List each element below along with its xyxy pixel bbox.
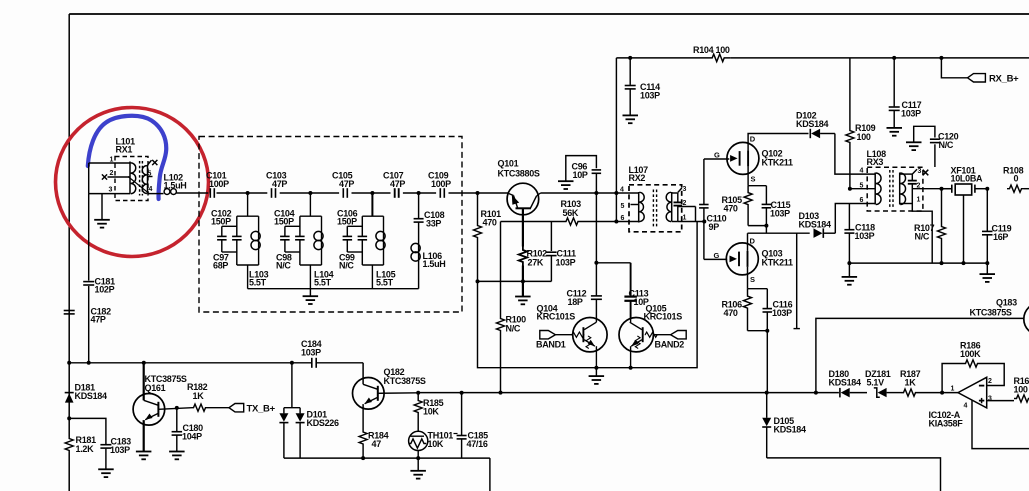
wire section bottom bus — [362, 264, 383, 266]
feedback resistor R186 100K — [942, 364, 963, 393]
svg-text:103P: 103P — [772, 308, 792, 318]
capacitor C120 N/C — [914, 126, 935, 141]
svg-text:N/C: N/C — [339, 261, 354, 271]
wire R101/R102/C111 bottom bus — [478, 280, 552, 282]
capacitor C105 47P — [342, 188, 344, 198]
svg-text:10L0BA: 10L0BA — [951, 174, 984, 184]
capacitor C96 10P — [566, 156, 597, 181]
annotation blue curve — [88, 116, 166, 199]
svg-text:103P: 103P — [855, 231, 875, 241]
capacitor C114 103P — [628, 56, 632, 60]
capacitor C110 9P — [703, 159, 705, 204]
capacitor C106 — [361, 216, 363, 236]
wire Q104 emitter to bus — [595, 346, 597, 368]
svg-text:6: 6 — [860, 197, 864, 204]
ground at C183 — [98, 468, 114, 470]
L108 secondary winding — [899, 173, 901, 205]
annotation red circle — [56, 108, 209, 257]
wire op-amp pin3 to R165 — [987, 400, 1014, 402]
node junction R185 — [416, 391, 420, 395]
svg-text:RX2: RX2 — [629, 173, 646, 183]
wire cap tie top — [347, 225, 362, 227]
node junction R101 bottom — [476, 279, 480, 283]
capacitor C184 103P (series in wire) — [311, 358, 313, 368]
L107 internal capacitor — [672, 192, 678, 194]
svg-text:RX3: RX3 — [867, 157, 884, 167]
wire drop to ground bus — [371, 265, 373, 289]
wire L102 to C101 — [176, 192, 208, 194]
svg-text:100: 100 — [1014, 385, 1028, 395]
svg-text:47P: 47P — [272, 179, 287, 189]
L101 top-right pin with X (N/C) — [148, 160, 152, 165]
diode D105 KDS184 — [766, 393, 768, 418]
L101 pin5 stub — [148, 176, 153, 178]
wire R106/C116 bottom bus — [748, 330, 768, 332]
svg-text:102P: 102P — [95, 285, 115, 295]
wire stub from detector bus (to other section) — [796, 233, 798, 328]
wire Q161 base — [158, 408, 192, 410]
node junction at rail x=247.6 — [246, 191, 250, 195]
svg-text:4: 4 — [964, 403, 968, 410]
svg-text:1K: 1K — [905, 378, 917, 388]
wire bias node to L107 pin6 — [501, 221, 566, 223]
wire D105 route to bottom right — [767, 458, 941, 491]
svg-text:16P: 16P — [993, 232, 1008, 242]
wire R105/C115 top bus — [748, 185, 766, 187]
wire drop to bottom edge — [489, 458, 491, 491]
main horizontal wire to op-amp — [418, 392, 839, 394]
resistor R105 470 — [744, 186, 752, 212]
transistor Q105 KRC101S — [619, 318, 653, 352]
wire op-amp pin4 — [972, 401, 1029, 449]
TX_B+ flag — [229, 404, 244, 412]
wire R106/C116 top bus — [748, 288, 768, 290]
resistor R187 1K — [901, 389, 918, 396]
wire L108 pin5 — [850, 188, 875, 190]
ground at band emitters — [595, 368, 597, 376]
node junction D101 drop — [290, 361, 294, 365]
capacitor C108 33P — [418, 193, 420, 219]
capacitor C183 103P — [100, 444, 111, 446]
transistor Q104 KRC101S — [573, 318, 607, 352]
svg-text:3: 3 — [918, 168, 922, 175]
svg-text:470: 470 — [483, 218, 497, 228]
wire vertical with C181 (to bottom rail) — [88, 194, 90, 281]
svg-text:N/C: N/C — [939, 140, 954, 150]
inductor L104 — [321, 216, 323, 265]
node junction at rail x=310.4 — [308, 191, 312, 195]
wire section bottom bus — [300, 264, 322, 266]
node junction C112 chain at main wire — [595, 193, 597, 263]
svg-text:2: 2 — [110, 170, 114, 177]
svg-text:1: 1 — [110, 157, 114, 164]
svg-text:1.5uH: 1.5uH — [423, 259, 446, 269]
wire main to L107 pin4 — [596, 192, 638, 194]
svg-text:9P: 9P — [709, 222, 720, 232]
wire R105/C115 bottom bus — [748, 225, 766, 227]
svg-text:5: 5 — [621, 203, 625, 210]
inductor L105 — [383, 216, 385, 265]
ground at C114 — [623, 114, 639, 116]
ground at C180 — [169, 451, 185, 453]
wire D102 to L108 pin4 — [835, 134, 875, 175]
wire L101 left loop (pin1 to pin3) — [88, 163, 90, 194]
wire Q103 drain — [747, 233, 749, 251]
resistor R106 470 — [744, 289, 752, 316]
frame top border — [69, 13, 1029, 15]
ground at Q161 emitter — [136, 451, 152, 453]
svg-text:0: 0 — [1014, 174, 1019, 184]
capacitor C104 — [299, 216, 301, 236]
svg-text:N/C: N/C — [915, 232, 930, 242]
svg-text:103P: 103P — [770, 209, 790, 219]
node junction R103/L107 feed — [614, 220, 618, 224]
resistor R109 100 (from rail to L108 pin5) — [849, 58, 851, 128]
wire Q103 gate — [704, 258, 727, 260]
L107 pin1 wire — [678, 221, 705, 223]
wire cap tie top — [285, 225, 300, 227]
capacitor C97 — [221, 226, 223, 236]
capacitor C109 100P — [439, 188, 441, 198]
svg-text:150P: 150P — [274, 217, 294, 227]
svg-text:KDS226: KDS226 — [307, 418, 340, 428]
svg-text:KTK211: KTK211 — [762, 158, 794, 168]
wire cap tie bottom — [347, 251, 362, 253]
op-amp IC102-A KIA358F — [958, 377, 987, 408]
svg-text:5.1V: 5.1V — [867, 378, 885, 388]
svg-text:5.5T: 5.5T — [249, 278, 267, 288]
svg-text:KTC3875S: KTC3875S — [384, 376, 426, 386]
filter block dashed box — [199, 137, 462, 313]
ground at C96 — [558, 180, 574, 182]
resistor R101 470 — [477, 193, 479, 222]
svg-text:47/16: 47/16 — [467, 439, 488, 449]
wire Q103 source — [747, 267, 749, 289]
resistor R103 56K — [565, 218, 579, 225]
dual diode D101 KDS226 — [291, 363, 293, 408]
capacitor C182 47P (on left border wire) — [64, 310, 75, 312]
svg-text:47: 47 — [372, 439, 382, 449]
resistor R184 47 (bold labels) — [362, 409, 364, 430]
svg-text:5.5T: 5.5T — [314, 278, 332, 288]
svg-text:100P: 100P — [431, 179, 451, 189]
svg-text:10P: 10P — [573, 170, 588, 180]
L107 secondary winding — [671, 192, 673, 222]
capacitor C180 104P — [176, 408, 178, 431]
wire Q104 collector entry — [595, 318, 597, 322]
svg-text:104P: 104P — [182, 432, 202, 442]
svg-text:103P: 103P — [556, 258, 576, 268]
transistor Q102 KTK211 (FET) — [727, 142, 759, 174]
capacitor C99 — [346, 226, 348, 236]
svg-text:KDS184: KDS184 — [799, 220, 832, 230]
transistor Q103 KTK211 (FET) — [726, 243, 758, 275]
svg-text:S: S — [750, 275, 755, 284]
svg-text:5: 5 — [860, 183, 864, 190]
svg-text:27K: 27K — [528, 258, 544, 268]
filter ground bus wire — [248, 288, 419, 290]
svg-text:47P: 47P — [91, 315, 106, 325]
L101 core dashed lines — [139, 161, 141, 196]
diode D180 KDS184 — [839, 388, 841, 398]
svg-text:68P: 68P — [213, 261, 228, 271]
transformer L108 dashed box — [867, 167, 923, 211]
L108 pin3 stub with asterisk — [912, 169, 917, 174]
wire to Q183 — [816, 318, 1024, 392]
bottom supply wire — [69, 362, 311, 364]
L101 tuning slug diagonal — [128, 177, 150, 194]
frame left border / B+ rail wire — [68, 14, 70, 437]
svg-text:D: D — [750, 135, 756, 144]
svg-text:KTK211: KTK211 — [762, 258, 794, 268]
svg-text:47P: 47P — [339, 179, 354, 189]
wire C116 node down to main wire — [766, 331, 768, 393]
svg-text:5: 5 — [148, 171, 152, 178]
resistor R100 N/C (chain down to main wire) — [500, 222, 502, 317]
node junction supply drop — [614, 191, 618, 195]
capacitor C103 47P — [271, 188, 273, 198]
capacitor C101 100P — [209, 188, 211, 198]
svg-text:56K: 56K — [563, 208, 579, 218]
svg-text:150P: 150P — [337, 217, 357, 227]
ground at detector rail — [985, 261, 989, 265]
inductor L106 1.5uH — [418, 222, 420, 289]
capacitor C112 18P — [595, 263, 597, 296]
svg-text:KIA358F: KIA358F — [929, 419, 964, 429]
svg-text:KDS184: KDS184 — [75, 391, 108, 401]
wire feed from rail — [247, 193, 249, 216]
svg-text:4: 4 — [620, 187, 624, 194]
wire Q102 gate — [704, 158, 729, 160]
L101 primary winding — [129, 162, 131, 194]
diode D103 KDS184 — [822, 228, 824, 238]
svg-text:Q161: Q161 — [145, 383, 166, 393]
svg-text:KRC101S: KRC101S — [537, 312, 576, 322]
node junction at rail x=372.4 — [370, 191, 374, 195]
resistor R107 N/C — [940, 187, 944, 191]
capacitor C181 102P — [83, 281, 94, 283]
wire Q101 collector to C96 junction — [541, 192, 597, 194]
wire R182 to TX_B+ flag — [207, 407, 229, 409]
wire XF101 case to ground rail — [963, 195, 965, 263]
wire cap tie top — [222, 225, 237, 227]
svg-text:103P: 103P — [901, 109, 921, 119]
capacitor C118 103P — [848, 204, 850, 230]
wire TH101 to bus — [417, 451, 419, 471]
wire Q105 collector entry — [630, 318, 632, 322]
svg-text:1: 1 — [683, 215, 687, 222]
capacitor C116 103P — [766, 289, 768, 309]
ground at TH101 — [410, 470, 426, 472]
svg-text:BAND1: BAND1 — [536, 340, 566, 350]
BAND1 flag — [540, 331, 556, 339]
node junction C185 — [460, 391, 464, 395]
svg-text:RX1: RX1 — [116, 145, 133, 155]
svg-text:1: 1 — [917, 197, 921, 204]
svg-text:33P: 33P — [426, 219, 441, 229]
wire Q102 drain — [748, 134, 808, 151]
resistor R165 100K (partial at edge) — [1014, 395, 1029, 402]
wire cap tie bottom — [285, 251, 300, 253]
wire Q182 collector — [362, 363, 364, 379]
transformer L101 dashed box — [115, 157, 148, 201]
wire D103 to L108 pin6 — [835, 204, 875, 234]
wire feed from rail — [371, 193, 373, 216]
svg-text:G: G — [714, 251, 720, 260]
capacitor C113 10P (bold) — [630, 263, 632, 297]
svg-text:BAND2: BAND2 — [655, 340, 685, 350]
svg-text:KDS184: KDS184 — [774, 425, 807, 435]
svg-text:S: S — [751, 175, 756, 184]
capacitor C102 — [236, 216, 238, 236]
svg-text:2: 2 — [988, 378, 992, 385]
svg-text:KDS184: KDS184 — [796, 119, 829, 129]
capacitor C111 103P — [550, 222, 552, 252]
Q101 base/emitter structure — [508, 193, 514, 196]
svg-text:3: 3 — [109, 187, 113, 194]
wire to C183 — [69, 418, 106, 444]
supply rail wire — [616, 57, 706, 59]
inductor L103 — [258, 216, 260, 265]
main rail wire through filter — [217, 192, 268, 194]
svg-text:R104 100: R104 100 — [693, 45, 730, 55]
L107 pin3 stub — [678, 188, 682, 193]
svg-text:1K: 1K — [193, 391, 205, 401]
wire AGC return (band box right edge) — [478, 222, 698, 368]
L108 pin1 wire — [912, 204, 932, 264]
transformer L107 dashed box — [629, 185, 682, 232]
svg-text:103P: 103P — [301, 348, 321, 358]
wire cap tie bottom — [222, 251, 237, 253]
svg-text:6: 6 — [621, 215, 625, 222]
bottom common bus wire — [284, 457, 490, 459]
ground of filter — [309, 289, 311, 296]
svg-text:470: 470 — [724, 308, 738, 318]
svg-text:470: 470 — [724, 204, 738, 214]
svg-text:N/C: N/C — [506, 324, 521, 334]
wire drain bus to D103 — [748, 232, 810, 234]
resistor R185 10K — [417, 393, 419, 399]
svg-text:RX_B+: RX_B+ — [989, 74, 1019, 85]
resistor R104 100 — [706, 54, 730, 62]
detector ground rail wire — [849, 262, 987, 264]
node junction C183 tee — [67, 416, 71, 420]
L108 internal capacitor — [900, 173, 913, 175]
resistor R102 27K — [519, 247, 527, 266]
RX_B+ supply flag — [939, 56, 943, 60]
svg-text:D: D — [750, 237, 756, 246]
svg-text:1: 1 — [951, 386, 955, 393]
ground at Q101 emitter — [515, 296, 531, 298]
resistor R181 1.2K (on left wire) — [65, 437, 73, 453]
svg-text:2: 2 — [683, 200, 687, 207]
svg-text:3: 3 — [683, 186, 687, 193]
svg-text:3: 3 — [988, 396, 992, 403]
wire Q182 base to main wire — [378, 392, 418, 395]
ground at C118 — [848, 263, 850, 276]
wire L101 pin1 — [89, 162, 130, 164]
svg-text:100: 100 — [857, 132, 871, 142]
wire drop to ground bus — [309, 265, 311, 289]
wire feed from rail — [309, 193, 311, 216]
svg-text:10K: 10K — [423, 407, 439, 417]
svg-text:2: 2 — [917, 183, 921, 190]
node junction C180 — [175, 406, 179, 410]
node junction C96 at main wire — [594, 191, 598, 195]
L108 primary winding — [874, 173, 876, 205]
svg-text:4: 4 — [860, 168, 864, 175]
node junction op-amp input — [940, 391, 944, 395]
capacitor C115 103P — [765, 186, 767, 205]
svg-text:KRC101S: KRC101S — [644, 312, 683, 322]
svg-text:103P: 103P — [110, 445, 130, 455]
svg-text:100K: 100K — [960, 349, 981, 359]
svg-text:N/C: N/C — [276, 261, 291, 271]
svg-text:Q101: Q101 — [498, 159, 519, 169]
svg-text:1.2K: 1.2K — [76, 444, 95, 454]
thermistor TH101 10K — [409, 431, 428, 450]
svg-text:10K: 10K — [428, 439, 444, 449]
L108 pin2 wire — [912, 188, 951, 190]
capacitor C119 16P — [985, 187, 989, 191]
wire drop to ground bus — [247, 265, 249, 289]
L107 primary winding — [638, 192, 640, 223]
capacitor C107 47P — [394, 188, 396, 198]
svg-text:KDS184: KDS184 — [829, 378, 862, 388]
wire Q102 source — [747, 166, 749, 185]
wire L101 pin2 with X (N/C) — [108, 176, 131, 178]
ground at L101 pin3 — [101, 194, 103, 220]
L101 secondary winding — [147, 165, 149, 194]
ground at C117 — [887, 127, 903, 129]
wire L101 pin3 — [89, 193, 130, 195]
wire section top bus — [300, 215, 322, 217]
svg-text:100P: 100P — [209, 179, 229, 189]
diode D102 KDS184 — [809, 129, 811, 138]
svg-text:TX_B+: TX_B+ — [247, 404, 276, 415]
resistor R182 1K — [192, 404, 207, 411]
diode D181 KDS184 (on left wire) — [65, 392, 74, 394]
L107 core dashed lines — [652, 190, 654, 227]
node junction C108 — [417, 191, 421, 195]
capacitor C98 — [284, 226, 286, 236]
svg-text:KTC3880S: KTC3880S — [498, 169, 540, 179]
svg-text:Q183: Q183 — [996, 298, 1017, 308]
wire supply drop from R104 rail — [615, 58, 617, 222]
capacitor C185 47/16 — [461, 393, 463, 435]
svg-text:150P: 150P — [211, 217, 231, 227]
L108 core dashed lines — [889, 170, 891, 208]
zener diode DZ181 5.1V — [874, 388, 880, 397]
svg-text:KTC3875S: KTC3875S — [970, 308, 1012, 318]
svg-text:18P: 18P — [568, 297, 583, 307]
wire Q161 emitter to ground — [143, 425, 145, 452]
L107 pin2 wire — [678, 206, 696, 208]
capacitor C117 103P — [892, 56, 896, 60]
ground at C120 — [906, 141, 922, 143]
wire Q161 collector (thick) — [143, 363, 145, 394]
node junction R101 at rail — [476, 191, 480, 195]
svg-text:5.5T: 5.5T — [376, 278, 394, 288]
wire Q105 emitter to bus — [630, 346, 632, 368]
wire Q101 emitter (thick) — [522, 208, 524, 246]
L107 pin5 stub — [631, 204, 639, 206]
wire section top bus — [362, 215, 383, 217]
wire C112-C113 tie — [596, 262, 630, 264]
svg-text:4: 4 — [149, 186, 153, 193]
wire section top bus — [237, 215, 259, 217]
BAND2 flag — [671, 331, 687, 339]
